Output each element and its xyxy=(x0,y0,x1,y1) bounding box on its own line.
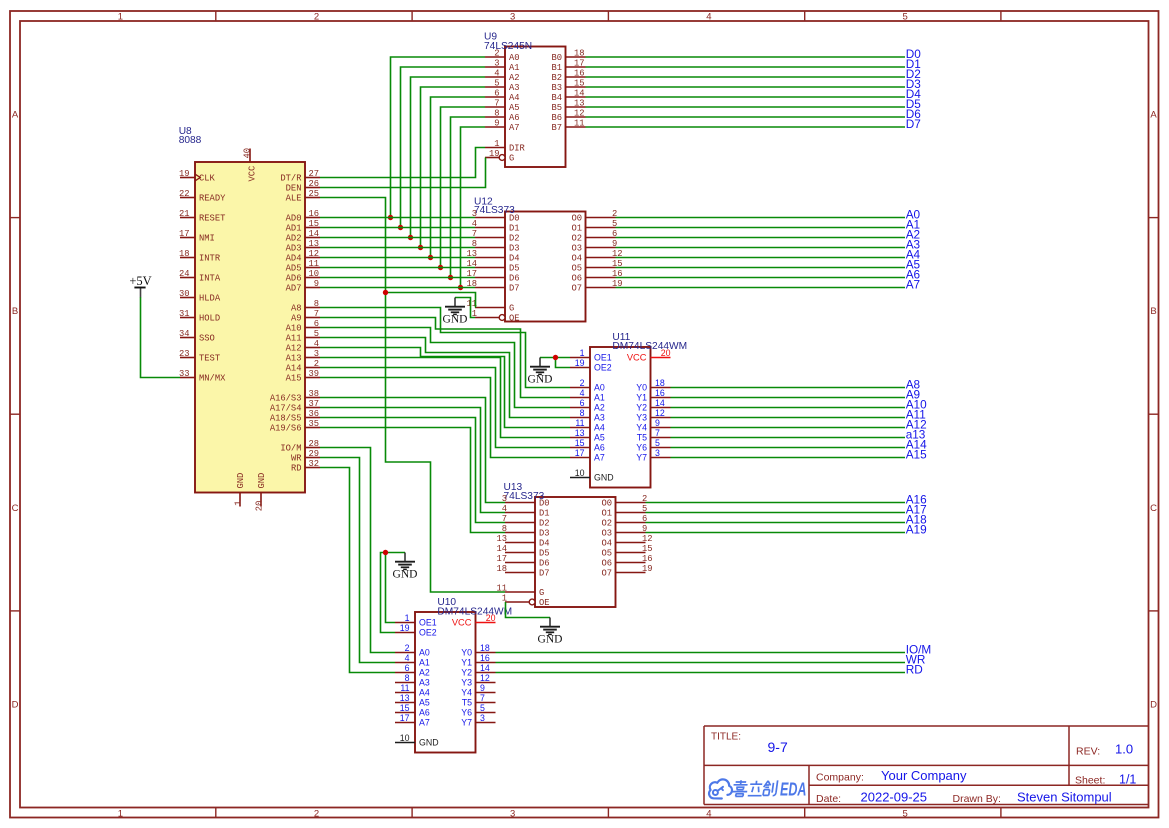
svg-text:4: 4 xyxy=(314,339,319,349)
svg-text:B3: B3 xyxy=(551,83,562,93)
svg-text:26: 26 xyxy=(308,179,319,189)
svg-text:CLK: CLK xyxy=(199,174,216,184)
svg-text:13: 13 xyxy=(574,98,585,108)
svg-text:16: 16 xyxy=(480,653,490,663)
svg-text:O6: O6 xyxy=(601,559,612,569)
svg-text:RD: RD xyxy=(291,464,302,474)
svg-text:9: 9 xyxy=(314,279,319,289)
svg-text:3: 3 xyxy=(494,58,499,68)
svg-text:O0: O0 xyxy=(571,214,582,224)
svg-text:G: G xyxy=(509,154,514,164)
svg-text:15: 15 xyxy=(308,219,319,229)
svg-text:17: 17 xyxy=(179,229,190,239)
svg-text:MN/MX: MN/MX xyxy=(199,374,226,384)
svg-text:G: G xyxy=(539,588,544,598)
svg-text:A4: A4 xyxy=(419,688,430,698)
svg-text:A2: A2 xyxy=(419,668,430,678)
svg-text:9: 9 xyxy=(494,118,499,128)
svg-text:DM74LS244WM: DM74LS244WM xyxy=(437,606,512,617)
svg-text:10: 10 xyxy=(400,733,410,743)
svg-text:DIR: DIR xyxy=(509,144,526,154)
svg-text:EDA: EDA xyxy=(780,779,807,799)
svg-text:12: 12 xyxy=(642,534,653,544)
svg-text:29: 29 xyxy=(308,449,319,459)
svg-text:40: 40 xyxy=(242,148,252,159)
svg-text:A1: A1 xyxy=(509,63,520,73)
svg-text:VCC: VCC xyxy=(627,353,647,363)
svg-text:A: A xyxy=(12,110,19,121)
svg-text:2: 2 xyxy=(314,359,319,369)
svg-text:20: 20 xyxy=(255,501,265,512)
svg-text:WR: WR xyxy=(291,454,302,464)
svg-text:GND: GND xyxy=(419,738,439,748)
svg-text:74LS245N: 74LS245N xyxy=(484,41,532,52)
svg-text:Y7: Y7 xyxy=(461,718,472,728)
svg-text:2: 2 xyxy=(405,643,410,653)
svg-text:A6: A6 xyxy=(594,443,605,453)
svg-text:NMI: NMI xyxy=(199,234,215,244)
svg-text:B1: B1 xyxy=(551,63,562,73)
svg-text:33: 33 xyxy=(179,369,190,379)
svg-text:AD3: AD3 xyxy=(286,244,302,254)
svg-text:8: 8 xyxy=(494,108,499,118)
svg-text:A18/S5: A18/S5 xyxy=(270,414,302,424)
svg-text:D7: D7 xyxy=(539,569,550,579)
svg-text:15: 15 xyxy=(575,438,585,448)
svg-text:AD5: AD5 xyxy=(286,264,302,274)
svg-text:16: 16 xyxy=(574,68,585,78)
svg-text:A2: A2 xyxy=(594,403,605,413)
svg-text:B5: B5 xyxy=(551,103,562,113)
svg-text:RD: RD xyxy=(906,662,923,676)
svg-text:D5: D5 xyxy=(539,549,550,559)
svg-text:O5: O5 xyxy=(601,549,612,559)
svg-text:12: 12 xyxy=(655,408,665,418)
svg-text:5: 5 xyxy=(480,703,485,713)
svg-text:O4: O4 xyxy=(571,254,582,264)
svg-text:1.0: 1.0 xyxy=(1115,742,1133,757)
svg-text:A13: A13 xyxy=(286,354,302,364)
svg-text:35: 35 xyxy=(308,419,319,429)
svg-text:7: 7 xyxy=(655,428,660,438)
svg-text:3: 3 xyxy=(480,713,485,723)
svg-text:4: 4 xyxy=(706,11,711,22)
svg-text:4: 4 xyxy=(706,808,711,819)
svg-text:D3: D3 xyxy=(539,529,550,539)
svg-text:GND: GND xyxy=(443,314,468,326)
svg-text:18: 18 xyxy=(480,643,490,653)
svg-text:11: 11 xyxy=(400,683,409,693)
svg-text:5: 5 xyxy=(902,808,907,819)
svg-text:A3: A3 xyxy=(509,83,520,93)
svg-text:D7: D7 xyxy=(906,117,921,131)
svg-text:17: 17 xyxy=(496,554,507,564)
svg-text:A6: A6 xyxy=(509,113,520,123)
svg-text:Company:: Company: xyxy=(816,772,864,784)
svg-text:B2: B2 xyxy=(551,73,562,83)
svg-text:Drawn By:: Drawn By: xyxy=(953,793,1001,805)
svg-text:AD0: AD0 xyxy=(286,214,302,224)
svg-text:REV:: REV: xyxy=(1076,746,1100,758)
svg-text:39: 39 xyxy=(308,369,319,379)
svg-text:1: 1 xyxy=(580,348,585,358)
svg-text:8088: 8088 xyxy=(179,135,202,146)
svg-text:A7: A7 xyxy=(419,718,430,728)
svg-text:Y7: Y7 xyxy=(636,453,647,463)
svg-text:GND: GND xyxy=(393,569,418,581)
svg-text:20: 20 xyxy=(661,348,671,358)
svg-text:18: 18 xyxy=(655,378,665,388)
svg-text:36: 36 xyxy=(308,409,319,419)
svg-text:19: 19 xyxy=(642,564,653,574)
svg-text:6: 6 xyxy=(314,319,319,329)
svg-text:A10: A10 xyxy=(286,324,302,334)
svg-text:1: 1 xyxy=(118,808,123,819)
svg-text:30: 30 xyxy=(179,289,190,299)
svg-text:Y4: Y4 xyxy=(461,688,472,698)
svg-text:14: 14 xyxy=(655,398,665,408)
svg-text:DM74LS244WM: DM74LS244WM xyxy=(612,341,687,352)
svg-text:2: 2 xyxy=(580,378,585,388)
svg-text:IO/M: IO/M xyxy=(280,444,301,454)
svg-text:8: 8 xyxy=(314,299,319,309)
svg-text:7: 7 xyxy=(314,309,319,319)
svg-text:A3: A3 xyxy=(594,413,605,423)
svg-text:DT/R: DT/R xyxy=(280,174,302,184)
svg-text:9-7: 9-7 xyxy=(768,739,788,755)
svg-text:A15: A15 xyxy=(906,447,927,461)
svg-text:16: 16 xyxy=(642,554,653,564)
svg-text:OE: OE xyxy=(509,314,520,324)
svg-text:A5: A5 xyxy=(509,103,520,113)
svg-text:O3: O3 xyxy=(571,244,582,254)
svg-text:8: 8 xyxy=(405,673,410,683)
svg-text:25: 25 xyxy=(308,189,319,199)
svg-text:14: 14 xyxy=(480,663,490,673)
svg-text:A8: A8 xyxy=(291,304,302,314)
svg-text:B: B xyxy=(12,306,18,317)
svg-text:D6: D6 xyxy=(509,274,520,284)
svg-text:10: 10 xyxy=(308,269,319,279)
svg-text:HLDA: HLDA xyxy=(199,294,221,304)
svg-text:VCC: VCC xyxy=(248,166,258,182)
svg-text:4: 4 xyxy=(580,388,585,398)
svg-text:A11: A11 xyxy=(286,334,302,344)
svg-text:37: 37 xyxy=(308,399,319,409)
svg-text:C: C xyxy=(12,503,19,514)
svg-text:GND: GND xyxy=(528,374,553,386)
svg-text:B7: B7 xyxy=(551,123,562,133)
svg-text:14: 14 xyxy=(308,229,319,239)
svg-text:6: 6 xyxy=(580,398,585,408)
svg-text:C: C xyxy=(1150,503,1157,514)
svg-text:A15: A15 xyxy=(286,374,302,384)
svg-text:D1: D1 xyxy=(509,224,520,234)
svg-text:O3: O3 xyxy=(601,529,612,539)
svg-text:VCC: VCC xyxy=(452,618,472,628)
svg-text:A7: A7 xyxy=(509,123,520,133)
svg-text:4: 4 xyxy=(405,653,410,663)
svg-text:D4: D4 xyxy=(509,254,520,264)
svg-text:OE1: OE1 xyxy=(419,618,437,628)
svg-text:2: 2 xyxy=(494,48,499,58)
svg-text:INTA: INTA xyxy=(199,274,221,284)
svg-text:O2: O2 xyxy=(571,234,582,244)
svg-text:17: 17 xyxy=(574,58,585,68)
svg-text:20: 20 xyxy=(486,613,496,623)
svg-text:1: 1 xyxy=(502,593,507,603)
svg-text:A: A xyxy=(1150,110,1157,121)
svg-text:11: 11 xyxy=(575,418,584,428)
svg-text:13: 13 xyxy=(308,239,319,249)
svg-text:Y6: Y6 xyxy=(461,708,472,718)
svg-text:12: 12 xyxy=(480,673,490,683)
svg-text:Y1: Y1 xyxy=(636,393,647,403)
svg-text:D: D xyxy=(12,700,19,711)
svg-text:19: 19 xyxy=(575,358,585,368)
svg-text:14: 14 xyxy=(574,88,585,98)
svg-text:HOLD: HOLD xyxy=(199,314,220,324)
svg-text:Your Company: Your Company xyxy=(881,768,967,783)
svg-text:6: 6 xyxy=(494,88,499,98)
svg-text:14: 14 xyxy=(496,544,507,554)
svg-text:2022-09-25: 2022-09-25 xyxy=(861,790,928,805)
svg-text:Y0: Y0 xyxy=(461,648,472,658)
svg-text:6: 6 xyxy=(405,663,410,673)
svg-text:A0: A0 xyxy=(594,383,605,393)
svg-text:15: 15 xyxy=(642,544,653,554)
svg-text:13: 13 xyxy=(496,534,507,544)
svg-text:Y2: Y2 xyxy=(636,403,647,413)
svg-text:13: 13 xyxy=(575,428,585,438)
svg-text:A2: A2 xyxy=(509,73,520,83)
svg-text:17: 17 xyxy=(400,713,410,723)
svg-text:AD7: AD7 xyxy=(286,284,302,294)
svg-text:AD6: AD6 xyxy=(286,274,302,284)
svg-text:D: D xyxy=(1150,700,1157,711)
svg-text:A0: A0 xyxy=(419,648,430,658)
svg-text:TITLE:: TITLE: xyxy=(711,732,741,743)
svg-text:15: 15 xyxy=(400,703,410,713)
svg-text:O5: O5 xyxy=(571,264,582,274)
svg-text:AD1: AD1 xyxy=(286,224,302,234)
svg-text:A1: A1 xyxy=(594,393,605,403)
svg-text:19: 19 xyxy=(489,149,500,159)
svg-text:24: 24 xyxy=(179,269,190,279)
svg-text:GND: GND xyxy=(594,473,614,483)
svg-text:38: 38 xyxy=(308,389,319,399)
svg-text:AD4: AD4 xyxy=(286,254,302,264)
svg-text:INTR: INTR xyxy=(199,254,221,264)
svg-text:A3: A3 xyxy=(419,678,430,688)
svg-text:Y6: Y6 xyxy=(636,443,647,453)
svg-text:10: 10 xyxy=(575,468,585,478)
svg-text:O2: O2 xyxy=(601,519,612,529)
svg-text:3: 3 xyxy=(655,448,660,458)
svg-text:O0: O0 xyxy=(601,499,612,509)
svg-text:3: 3 xyxy=(510,11,515,22)
svg-text:D3: D3 xyxy=(509,244,520,254)
svg-text:2: 2 xyxy=(314,808,319,819)
svg-text:Y1: Y1 xyxy=(461,658,472,668)
svg-text:SSO: SSO xyxy=(199,334,215,344)
svg-text:AD2: AD2 xyxy=(286,234,302,244)
svg-text:Steven Sitompul: Steven Sitompul xyxy=(1017,790,1112,805)
svg-text:A17/S4: A17/S4 xyxy=(270,404,302,414)
svg-text:16: 16 xyxy=(655,388,665,398)
svg-text:9: 9 xyxy=(480,683,485,693)
svg-text:A6: A6 xyxy=(419,708,430,718)
svg-text:GND: GND xyxy=(538,634,563,646)
svg-text:19: 19 xyxy=(179,169,190,179)
svg-text:+5V: +5V xyxy=(129,274,151,288)
svg-text:31: 31 xyxy=(179,309,190,319)
svg-text:34: 34 xyxy=(179,329,190,339)
svg-text:1: 1 xyxy=(234,501,244,506)
svg-text:17: 17 xyxy=(575,448,585,458)
svg-text:5: 5 xyxy=(655,438,660,448)
svg-text:21: 21 xyxy=(179,209,190,219)
svg-text:T5: T5 xyxy=(637,433,647,443)
svg-text:16: 16 xyxy=(308,209,319,219)
svg-text:A19: A19 xyxy=(906,522,927,536)
svg-text:G: G xyxy=(509,304,514,314)
svg-text:D2: D2 xyxy=(509,234,520,244)
svg-text:22: 22 xyxy=(179,189,190,199)
svg-text:Y2: Y2 xyxy=(461,668,472,678)
svg-text:A16/S3: A16/S3 xyxy=(270,394,302,404)
svg-text:18: 18 xyxy=(574,48,585,58)
svg-text:Date:: Date: xyxy=(816,793,841,805)
svg-text:O7: O7 xyxy=(571,284,582,294)
svg-text:O4: O4 xyxy=(601,539,612,549)
svg-text:A4: A4 xyxy=(509,93,520,103)
svg-text:5: 5 xyxy=(314,329,319,339)
svg-text:D6: D6 xyxy=(539,559,550,569)
svg-text:ALE: ALE xyxy=(286,194,302,204)
svg-text:OE2: OE2 xyxy=(594,363,612,373)
svg-text:5: 5 xyxy=(494,78,499,88)
svg-text:O7: O7 xyxy=(601,569,612,579)
svg-text:3: 3 xyxy=(510,808,515,819)
svg-text:D7: D7 xyxy=(509,284,520,294)
svg-text:B4: B4 xyxy=(551,93,562,103)
svg-text:O1: O1 xyxy=(601,509,612,519)
svg-text:12: 12 xyxy=(308,249,319,259)
svg-text:7: 7 xyxy=(494,98,499,108)
svg-text:5: 5 xyxy=(902,11,907,22)
svg-text:1: 1 xyxy=(118,11,123,22)
svg-text:7: 7 xyxy=(480,693,485,703)
svg-text:DEN: DEN xyxy=(286,184,302,194)
svg-text:4: 4 xyxy=(494,68,499,78)
svg-text:A4: A4 xyxy=(594,423,605,433)
svg-text:B6: B6 xyxy=(551,113,562,123)
svg-text:19: 19 xyxy=(400,623,410,633)
svg-text:A12: A12 xyxy=(286,344,302,354)
svg-text:GND: GND xyxy=(257,473,267,489)
svg-text:OE1: OE1 xyxy=(594,353,612,363)
svg-text:D4: D4 xyxy=(539,539,550,549)
svg-text:B0: B0 xyxy=(551,53,562,63)
svg-text:A5: A5 xyxy=(419,698,430,708)
svg-text:Y4: Y4 xyxy=(636,423,647,433)
svg-text:D5: D5 xyxy=(509,264,520,274)
svg-text:A7: A7 xyxy=(906,277,920,291)
svg-text:A19/S6: A19/S6 xyxy=(270,424,302,434)
svg-text:TEST: TEST xyxy=(199,354,220,364)
svg-text:D1: D1 xyxy=(539,509,550,519)
svg-text:11: 11 xyxy=(308,259,319,269)
svg-text:9: 9 xyxy=(655,418,660,428)
svg-text:A0: A0 xyxy=(509,53,520,63)
svg-text:A9: A9 xyxy=(291,314,302,324)
svg-text:13: 13 xyxy=(400,693,410,703)
svg-text:GND: GND xyxy=(236,473,246,489)
svg-text:O6: O6 xyxy=(571,274,582,284)
svg-text:28: 28 xyxy=(308,439,319,449)
svg-text:12: 12 xyxy=(574,108,585,118)
svg-text:32: 32 xyxy=(308,459,319,469)
svg-text:Sheet:: Sheet: xyxy=(1075,775,1105,787)
svg-text:D2: D2 xyxy=(539,519,550,529)
svg-text:A7: A7 xyxy=(594,453,605,463)
svg-text:1: 1 xyxy=(494,139,499,149)
svg-text:READY: READY xyxy=(199,194,226,204)
svg-text:A1: A1 xyxy=(419,658,430,668)
svg-text:11: 11 xyxy=(574,118,585,128)
svg-text:1: 1 xyxy=(405,613,410,623)
svg-text:Y0: Y0 xyxy=(636,383,647,393)
svg-text:OE: OE xyxy=(539,598,550,608)
svg-text:18: 18 xyxy=(496,564,507,574)
svg-text:RESET: RESET xyxy=(199,214,225,224)
svg-text:T5: T5 xyxy=(462,698,472,708)
svg-text:3: 3 xyxy=(314,349,319,359)
svg-text:O1: O1 xyxy=(571,224,582,234)
svg-text:D0: D0 xyxy=(509,214,520,224)
svg-text:Y3: Y3 xyxy=(461,678,472,688)
svg-text:A5: A5 xyxy=(594,433,605,443)
svg-text:1/1: 1/1 xyxy=(1119,773,1136,787)
svg-text:B: B xyxy=(1150,306,1156,317)
svg-text:15: 15 xyxy=(574,78,585,88)
svg-text:D0: D0 xyxy=(539,499,550,509)
svg-text:Y3: Y3 xyxy=(636,413,647,423)
svg-text:27: 27 xyxy=(308,169,319,179)
svg-text:18: 18 xyxy=(179,249,190,259)
svg-text:8: 8 xyxy=(580,408,585,418)
svg-text:2: 2 xyxy=(314,11,319,22)
svg-text:A14: A14 xyxy=(286,364,302,374)
svg-text:23: 23 xyxy=(179,349,190,359)
svg-text:OE2: OE2 xyxy=(419,628,437,638)
